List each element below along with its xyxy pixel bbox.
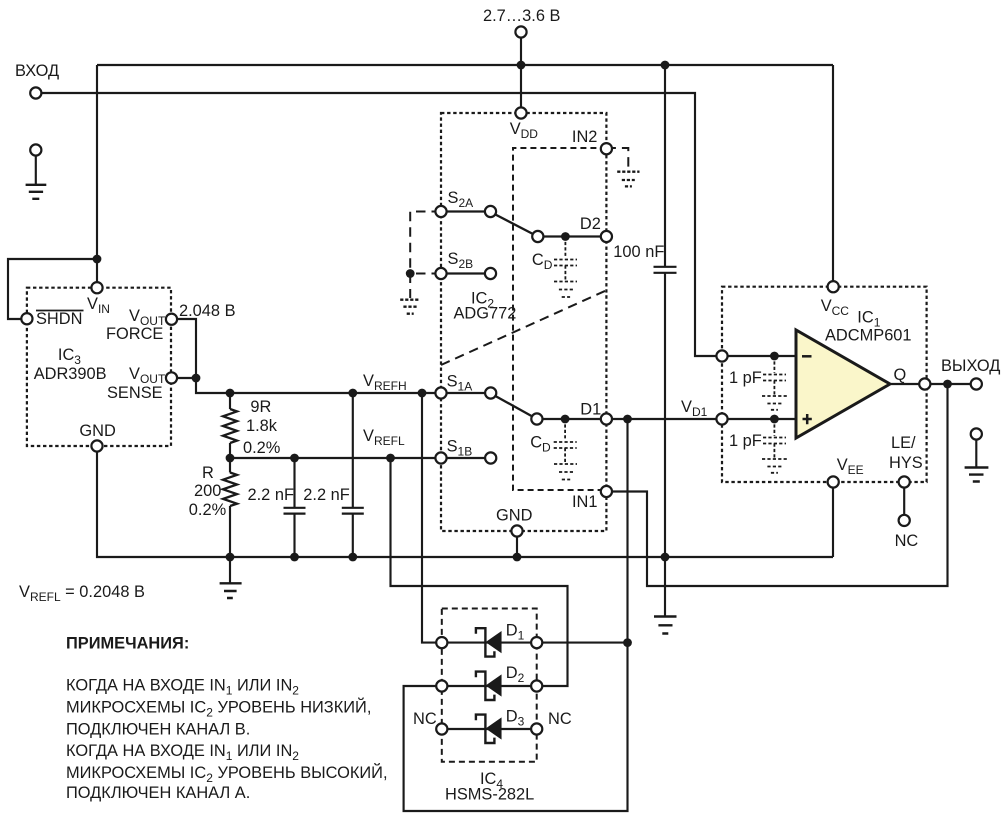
wire S2 pole to D2 pin: [538, 235, 607, 237]
wire switch arm S1: [493, 395, 537, 420]
IC4 dashed box HSMS-282L: [442, 609, 537, 762]
capacitor 2.2nF C2 plates: [342, 508, 364, 514]
wire S1B pin to contact: [441, 457, 491, 459]
svg-text:ВЫХОД: ВЫХОД: [941, 357, 1000, 375]
pin IC2 IN1: [601, 486, 612, 497]
wire IC2 GND drop: [516, 531, 518, 557]
pin IC4 D3 left NC: [436, 723, 447, 734]
wire VEE drop: [832, 482, 834, 557]
pin IC2 VDD: [515, 107, 526, 118]
contact S2A switch: [485, 206, 496, 217]
svg-text:IN1: IN1: [572, 493, 598, 511]
node ground rail at cap1: [290, 553, 299, 562]
wire VDD drop: [520, 65, 522, 113]
node minus input 1pF junction: [770, 352, 779, 361]
ground symbol main divider: [220, 557, 242, 598]
wire VREFL feedback to D2 diode: [391, 458, 568, 686]
pin IC1 VEE: [828, 476, 839, 487]
pin IC2 S1A: [435, 387, 446, 398]
pin IC2 S2A: [435, 206, 446, 217]
pin IC2 D1: [601, 413, 612, 424]
node output feedback junction: [943, 380, 952, 389]
svg-text:SENSE: SENSE: [107, 384, 163, 402]
pin IC1 NC: [899, 515, 910, 526]
ground symbol 100nF: [654, 617, 677, 634]
svg-text:D1: D1: [580, 401, 601, 419]
svg-text:МИКРОСХЕМЫ IC2 УРОВЕНЬ НИЗКИЙ,: МИКРОСХЕМЫ IC2 УРОВЕНЬ НИЗКИЙ,: [66, 698, 371, 720]
wire diode D2 row: [442, 685, 537, 687]
wire S2B pin to contact: [441, 272, 491, 274]
capacitor 100nF plates: [654, 267, 677, 273]
svg-text:1 pF: 1 pF: [729, 432, 762, 450]
wire S2A pin to contact: [441, 210, 491, 212]
overline of SHDN: [36, 310, 84, 312]
svg-text:1 pF: 1 pF: [729, 369, 762, 387]
wire VD1 line D1 switch to comparator plus: [607, 418, 796, 420]
wire left ground terminal stem: [35, 150, 37, 184]
node ground rail at IC2 GND: [513, 553, 522, 562]
capacitor CD dashed S1: [554, 419, 577, 480]
node S2 external ground junction: [406, 269, 415, 278]
svg-text:2.2 nF: 2.2 nF: [303, 486, 349, 504]
svg-text:2.048 В: 2.048 В: [179, 302, 236, 320]
svg-text:GND: GND: [496, 507, 533, 525]
pin IC2 S2B: [435, 268, 446, 279]
wire power rail 2.7-3.6V: [97, 64, 833, 66]
IC2 inner switch cell dashed box: [513, 148, 606, 490]
svg-text:0.2%: 0.2%: [189, 501, 226, 519]
IC2 ganged switch coupling dashed diagonal: [441, 291, 606, 366]
svg-text:КОГДА НА ВХОДЕ IN1 ИЛИ IN2: КОГДА НА ВХОДЕ IN1 ИЛИ IN2: [66, 677, 299, 698]
pin IC2 GND: [511, 525, 522, 536]
pin IC3 SHDN: [21, 313, 32, 324]
node supply rail junction at VDD: [517, 61, 526, 70]
comparator minus sign: [802, 355, 812, 358]
IN2 external dashed wire: [606, 148, 628, 170]
schottky diode D1: [476, 627, 501, 658]
capacitor 1pF minus input dashed: [762, 356, 787, 410]
IC3 dashed box ADR390B: [27, 288, 171, 446]
pin IC4 D3 right NC: [531, 723, 542, 734]
contact S1 pole: [531, 413, 542, 424]
pin IC4 D2 right: [531, 680, 542, 691]
svg-text:ADCMP601: ADCMP601: [825, 327, 912, 345]
schottky diode D3: [476, 713, 501, 744]
ground symbol left input: [26, 185, 47, 199]
svg-text:IN2: IN2: [572, 128, 598, 146]
wire S1 pole to D1 pin: [537, 418, 607, 420]
IN2 external dashed ground: [617, 172, 639, 187]
wire VD1 down right edge of diode loop to D2 left pin: [404, 419, 628, 811]
svg-text:200: 200: [194, 482, 221, 500]
node ground rail at cap2: [348, 553, 357, 562]
pin IC4 D1 anode: [531, 637, 542, 648]
capacitor CD dashed S2: [554, 237, 577, 298]
terminal ground left: [30, 144, 41, 155]
wire diode D1 row: [442, 642, 537, 644]
svg-text:ПОДКЛЮЧЕН КАНАЛ А.: ПОДКЛЮЧЕН КАНАЛ А.: [66, 784, 250, 802]
svg-text:ВХОД: ВХОД: [15, 62, 59, 80]
wire IC3 GND to ground rail to VEE corner: [97, 446, 833, 557]
pin IC1 minus input: [716, 350, 727, 361]
pin IC3 VOUT FORCE: [166, 314, 177, 325]
resistor R 200 zigzag: [223, 473, 237, 507]
terminal VYHOD output: [971, 378, 982, 389]
pin IC3 GND: [91, 440, 102, 451]
svg-text:100 nF: 100 nF: [613, 243, 664, 261]
wire cap1 2.2nF branch: [293, 458, 295, 557]
svg-text:HSMS-282L: HSMS-282L: [445, 786, 534, 804]
comparator triangle U1: [796, 330, 890, 438]
node VREFH at cap2: [348, 389, 357, 398]
pin IC2 D2: [601, 231, 612, 242]
svg-text:2.7…3.6 В: 2.7…3.6 В: [483, 7, 561, 25]
pin IC2 IN2: [601, 143, 612, 154]
IC2 dashed box ADG772: [441, 113, 606, 531]
wire VREFH to D1 diode cathode: [422, 393, 442, 643]
node VREFL at cap1: [290, 454, 299, 463]
S2B external dashed wire: [410, 273, 441, 275]
svg-text:2.2 nF: 2.2 nF: [248, 486, 294, 504]
svg-text:HYS: HYS: [889, 454, 923, 472]
node VREFH at 9R: [226, 389, 235, 398]
svg-text:ADG772: ADG772: [454, 305, 517, 323]
svg-text:FORCE: FORCE: [106, 325, 163, 343]
svg-text:1.8k: 1.8k: [246, 417, 278, 435]
svg-text:NC: NC: [413, 710, 437, 728]
svg-text:0.2%: 0.2%: [243, 439, 280, 457]
pin IC1 plus input: [716, 413, 727, 424]
wire divider chain segments: [229, 393, 231, 557]
wire cap2 2.2nF branch: [352, 393, 354, 557]
S2 external dashed ground: [400, 274, 420, 314]
pin IC2 S1B: [435, 452, 446, 463]
node D1 diode anode junction: [623, 638, 632, 647]
wire switch arm S2: [493, 213, 538, 237]
wire Vcc drop: [832, 65, 834, 287]
svg-text:D2: D2: [580, 215, 601, 233]
wire Vout sense: [172, 377, 197, 379]
svg-text:9R: 9R: [250, 398, 271, 416]
svg-text:ПРИМЕЧАНИЯ:: ПРИМЕЧАНИЯ:: [66, 635, 189, 653]
resistor 9R 1.8k zigzag: [223, 409, 237, 443]
contact S1A switch: [485, 387, 496, 398]
ground symbol right output: [965, 468, 989, 482]
node supply rail junction at 100nF: [661, 61, 670, 70]
node VREFL at divider: [226, 454, 235, 463]
comparator plus sign: [803, 414, 812, 424]
contact S1B switch: [485, 452, 496, 463]
pin IC3 VIN: [91, 282, 102, 293]
svg-text:NC: NC: [895, 532, 919, 550]
svg-text:ПОДКЛЮЧЕН КАНАЛ В.: ПОДКЛЮЧЕН КАНАЛ В.: [66, 721, 250, 739]
terminal ground right: [971, 428, 982, 439]
contact S2B switch: [485, 268, 496, 279]
node SHDN loop junction: [93, 255, 102, 264]
pin IC4 D2 left: [436, 680, 447, 691]
svg-text:LE/: LE/: [891, 434, 916, 452]
capacitor 2.2nF C1 plates: [284, 508, 306, 514]
node VREFH at D1 branch: [418, 389, 427, 398]
pin IC1 LE/HYS: [899, 476, 910, 487]
node S2 pole CD junction: [561, 232, 570, 241]
svg-text:NC: NC: [548, 710, 572, 728]
wire SHDN loop: [8, 259, 97, 319]
wire right ground terminal stem: [975, 434, 977, 467]
pin IC3 VOUT SENSE: [166, 372, 177, 383]
node S1 pole CD junction: [561, 415, 570, 424]
wire LE/HYS to NC: [903, 482, 905, 520]
contact S2 pole: [532, 231, 543, 242]
wire IN1 feedback from output: [607, 384, 948, 586]
wire Vin drop: [96, 65, 98, 288]
capacitor 1pF plus input dashed: [762, 419, 787, 473]
terminal VXOD: [30, 87, 41, 98]
wire Vout force to VREFH rail: [172, 319, 442, 393]
terminal supply 2.7-3.6V: [515, 26, 526, 37]
S2A external dashed wire: [410, 212, 441, 274]
svg-text:R: R: [202, 464, 214, 482]
wire S1A pin to contact: [441, 392, 491, 394]
wire 100nF branch: [664, 65, 666, 616]
wire VXOD input to comparator minus: [36, 93, 796, 356]
svg-text:МИКРОСХЕМЫ IC2 УРОВЕНЬ ВЫСОКИЙ: МИКРОСХЕМЫ IC2 УРОВЕНЬ ВЫСОКИЙ,: [66, 763, 388, 785]
node force-sense junction: [192, 374, 201, 383]
svg-text:Q: Q: [894, 366, 907, 384]
node VREFL at feedback branch: [386, 454, 395, 463]
pin IC4 D1 cathode: [436, 637, 447, 648]
schottky diode D2: [476, 670, 501, 701]
svg-text:GND: GND: [79, 422, 116, 440]
svg-text:SHDN: SHDN: [36, 310, 82, 328]
IC1 dashed box ADCMP601: [722, 287, 927, 482]
wire D1 diode anode to VD1 vertical: [537, 642, 628, 644]
wire VREFL rail: [230, 457, 441, 459]
pin IC1 VCC: [828, 281, 839, 292]
node VD1 branch junction: [623, 415, 632, 424]
pin IC1 Q output: [919, 378, 930, 389]
node ground rail at 100nF: [661, 553, 670, 562]
wire comparator output Q: [890, 383, 976, 385]
node plus input 1pF junction: [770, 415, 779, 424]
svg-text:ADR390B: ADR390B: [34, 365, 107, 383]
svg-text:КОГДА НА ВХОДЕ IN1 ИЛИ IN2: КОГДА НА ВХОДЕ IN1 ИЛИ IN2: [66, 742, 299, 763]
node ground rail at divider: [226, 553, 235, 562]
wire supply terminal drop: [520, 32, 522, 65]
wire diode D3 row: [442, 728, 537, 730]
